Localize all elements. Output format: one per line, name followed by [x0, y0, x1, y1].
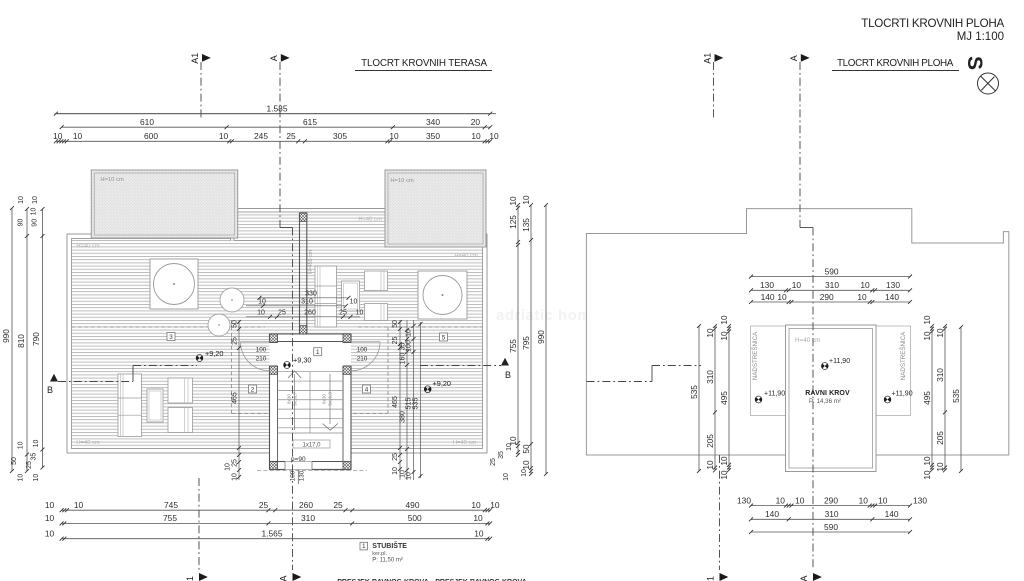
right plan right col 495 [931, 326, 933, 470]
svg-text:1: 1 [185, 576, 195, 581]
svg-text:A: A [279, 575, 289, 581]
svg-text:160: 160 [400, 353, 407, 365]
svg-text:A: A [269, 55, 279, 61]
svg-text:10: 10 [878, 495, 888, 505]
svg-text:A: A [799, 575, 809, 581]
svg-text:50: 50 [232, 320, 239, 328]
svg-text:10: 10 [17, 441, 24, 449]
svg-text:10: 10 [922, 470, 932, 480]
svg-text:1.585: 1.585 [267, 104, 288, 114]
svg-text:10: 10 [406, 472, 413, 480]
right top dim 590 [751, 276, 910, 278]
svg-text:NADSTREŠNICA: NADSTREŠNICA [900, 331, 907, 380]
svg-text:10: 10 [922, 315, 932, 325]
svg-text:+11,90: +11,90 [764, 390, 785, 397]
svg-text:10: 10 [490, 500, 500, 510]
svg-text:10: 10 [471, 500, 481, 510]
svg-text:535: 535 [413, 398, 420, 410]
svg-text:755: 755 [508, 339, 518, 353]
svg-text:515: 515 [406, 398, 413, 410]
right top dim 140/10/290/10/140 [751, 301, 910, 303]
svg-text:260: 260 [299, 500, 313, 510]
svg-text:130: 130 [737, 495, 751, 505]
box label 1 [314, 348, 322, 356]
svg-text:A: A [789, 55, 799, 61]
svg-text:495: 495 [719, 391, 729, 405]
svg-text:90: 90 [18, 219, 25, 227]
svg-text:25: 25 [392, 337, 399, 345]
right plan right col 310/205 [944, 326, 946, 470]
elevation +9,20 right [423, 384, 433, 394]
nadstresnica right [876, 326, 911, 416]
svg-text:245: 245 [254, 131, 268, 141]
svg-text:TLOCRTI KROVNIH PLOHA: TLOCRTI KROVNIH PLOHA [861, 17, 1004, 30]
mini dim under stair [297, 470, 299, 484]
svg-text:25: 25 [26, 461, 33, 469]
svg-text:P: 14,36 m²: P: 14,36 m² [809, 398, 841, 405]
section line 1 bottom right plan [719, 455, 721, 570]
svg-text:10: 10 [860, 280, 870, 290]
svg-text:10: 10 [935, 328, 945, 338]
svg-text:465: 465 [392, 396, 399, 408]
svg-text:+11,90: +11,90 [892, 390, 913, 397]
svg-text:8x30: 8x30 [322, 394, 327, 404]
svg-text:TLOCRT KROVNIH PLOHA: TLOCRT KROVNIH PLOHA [837, 58, 954, 69]
svg-text:10: 10 [45, 513, 55, 523]
svg-text:125: 125 [508, 215, 518, 229]
svg-text:310: 310 [825, 509, 839, 519]
dashed roof break line left [72, 326, 266, 328]
stair lower box 1x17 [293, 440, 330, 448]
svg-text:600: 600 [144, 131, 158, 141]
table mid [342, 281, 360, 311]
dashed hidden edge below stair [257, 469, 367, 471]
svg-text:10: 10 [777, 292, 787, 302]
svg-text:10: 10 [922, 331, 932, 341]
svg-text:1.565: 1.565 [262, 529, 283, 539]
elevation +11,90 center [820, 361, 830, 371]
right plan left col 310/205 [714, 326, 716, 470]
top dim row detail [56, 140, 490, 142]
svg-text:1x17,0: 1x17,0 [302, 442, 321, 448]
svg-text:10: 10 [521, 460, 531, 470]
svg-text:310: 310 [825, 280, 839, 290]
vchain x407 [406, 320, 408, 480]
svg-text:10: 10 [406, 329, 413, 337]
round table small 2 [208, 314, 230, 336]
svg-text:10: 10 [705, 328, 715, 338]
lounger pair bottom-left [118, 374, 142, 437]
svg-text:130: 130 [760, 280, 774, 290]
svg-text:10: 10 [45, 529, 55, 539]
box label 4 [363, 385, 371, 393]
top dim row 610/615/340/20 [62, 126, 491, 128]
svg-text:A1: A1 [703, 53, 713, 64]
svg-text:9x16,9: 9x16,9 [328, 392, 333, 406]
bottom dim row 755/310/500 [62, 522, 491, 524]
svg-text:205: 205 [705, 434, 715, 448]
svg-text:1: 1 [706, 576, 716, 581]
left dim col 810 [26, 209, 28, 471]
svg-text:10: 10 [859, 495, 869, 505]
svg-text:H=40 cm: H=40 cm [453, 440, 477, 446]
svg-text:130: 130 [299, 470, 306, 481]
svg-text:10: 10 [489, 131, 499, 141]
section line B right plan [587, 381, 653, 383]
elevation +11,90 left [754, 395, 764, 405]
svg-text:P: 11,50 m²: P: 11,50 m² [372, 558, 403, 564]
section line B right [420, 365, 501, 367]
svg-text:H=40 cm: H=40 cm [76, 244, 100, 250]
terrace top-right H=10 [385, 170, 486, 247]
svg-text:610: 610 [140, 117, 154, 127]
dim 310 row [246, 305, 346, 307]
svg-text:615: 615 [303, 117, 317, 127]
right bottom dim 140/310/140 [751, 518, 910, 520]
svg-text:290: 290 [820, 292, 834, 302]
svg-text:260: 260 [304, 309, 316, 316]
chimney wall above stair [299, 213, 301, 334]
svg-text:135: 135 [521, 218, 531, 232]
svg-text:50: 50 [11, 457, 18, 465]
chairs bottom-left [168, 378, 193, 403]
skylight square+circle left [150, 259, 198, 309]
svg-text:290: 290 [824, 495, 838, 505]
staircase enclosure U1 [270, 334, 352, 469]
door arc right [351, 342, 380, 371]
svg-text:130: 130 [913, 495, 927, 505]
svg-text:10: 10 [389, 131, 399, 141]
chairs mid [365, 271, 388, 291]
svg-text:10: 10 [219, 131, 229, 141]
elevation +9,20 left [195, 353, 205, 363]
svg-text:10: 10 [18, 474, 25, 482]
left dim col 790 [42, 209, 44, 468]
box label 5 [440, 333, 448, 341]
svg-text:25: 25 [232, 459, 239, 467]
svg-text:795: 795 [521, 336, 531, 350]
stair up arrow [294, 374, 296, 430]
svg-text:25: 25 [333, 500, 343, 510]
section line A1 right plan [713, 62, 715, 120]
svg-text:10: 10 [257, 309, 265, 316]
svg-text:140: 140 [885, 292, 899, 302]
svg-text:8x30: 8x30 [287, 394, 292, 404]
svg-text:10: 10 [30, 208, 37, 216]
svg-text:10: 10 [45, 500, 55, 510]
svg-text:310: 310 [705, 370, 715, 384]
svg-text:+9,30: +9,30 [293, 356, 311, 365]
svg-text:+9,20: +9,20 [433, 379, 451, 388]
svg-text:NADSTREŠNICA: NADSTREŠNICA [752, 331, 759, 380]
svg-text:210: 210 [256, 356, 267, 363]
svg-text:25: 25 [278, 309, 286, 316]
elevation +9,30 [282, 360, 292, 370]
svg-text:50: 50 [521, 444, 531, 454]
svg-text:310: 310 [301, 513, 315, 523]
lounger pair mid [315, 266, 337, 327]
svg-text:1: 1 [316, 349, 320, 356]
right top dim 130/10/310/10/130 [751, 289, 910, 291]
svg-text:H=40 cm: H=40 cm [76, 440, 100, 446]
svg-text:A1: A1 [190, 53, 200, 64]
section line 1 bottom [198, 478, 200, 570]
svg-text:10: 10 [33, 440, 40, 448]
stair divider [309, 372, 311, 433]
svg-text:140: 140 [765, 509, 779, 519]
svg-text:590: 590 [825, 266, 839, 276]
stair treads [278, 371, 344, 373]
svg-text:10: 10 [719, 315, 729, 325]
elevation +11,90 right [883, 395, 893, 405]
svg-text:9x16,7: 9x16,7 [293, 392, 298, 406]
right plan left col 495 [728, 326, 730, 470]
svg-text:+9,20: +9,20 [205, 349, 223, 358]
svg-text:ker.pl.: ker.pl. [372, 551, 387, 557]
legend stubiste [360, 542, 368, 550]
right plan right col 535 [960, 327, 962, 471]
svg-text:5: 5 [442, 334, 446, 341]
svg-text:535: 535 [951, 389, 961, 403]
stair down arrow [329, 374, 331, 424]
jacuzzi square+circle right [418, 271, 467, 319]
svg-text:100: 100 [256, 347, 267, 354]
svg-text:S: S [963, 56, 986, 70]
vchain x420.5 [420, 322, 422, 478]
svg-text:310: 310 [935, 368, 945, 382]
svg-text:H=450 cm: H=450 cm [308, 250, 314, 274]
door arc left [241, 342, 270, 371]
svg-text:590: 590 [824, 522, 838, 532]
svg-text:990: 990 [1, 329, 11, 343]
svg-text:p=90: p=90 [291, 456, 306, 463]
svg-text:adriatic home: adriatic home [496, 307, 600, 324]
svg-text:MJ 1:100: MJ 1:100 [957, 31, 1004, 43]
svg-text:810: 810 [16, 334, 26, 348]
svg-text:3: 3 [169, 334, 173, 341]
svg-text:10: 10 [792, 280, 802, 290]
north compass circle [978, 73, 999, 94]
section line A bottom flag right plan [813, 573, 822, 581]
svg-text:4: 4 [365, 386, 369, 393]
left plan upper deck H=40 [231, 209, 389, 241]
right plan left col 535 [698, 326, 700, 471]
svg-text:10: 10 [74, 500, 84, 510]
svg-text:H=10 cm: H=10 cm [100, 177, 124, 183]
svg-text:790: 790 [31, 332, 41, 346]
svg-text:TLOCRT KROVNIH TERASA: TLOCRT KROVNIH TERASA [361, 58, 487, 69]
svg-text:10: 10 [705, 460, 715, 470]
svg-text:10: 10 [922, 456, 932, 466]
svg-text:10: 10 [719, 470, 729, 480]
svg-text:25: 25 [232, 337, 239, 345]
svg-text:+11,90: +11,90 [829, 358, 850, 365]
svg-text:10: 10 [508, 196, 518, 206]
svg-text:10: 10 [719, 331, 729, 341]
svg-text:495: 495 [922, 391, 932, 405]
section line A1 top [200, 62, 202, 120]
right bottom dim detail [751, 505, 910, 507]
svg-text:25: 25 [339, 309, 347, 316]
right dim col 755 [517, 205, 519, 455]
bottom dim row 1.565 [62, 538, 491, 540]
svg-text:10: 10 [503, 473, 510, 481]
table bottom-left [147, 389, 163, 422]
svg-text:340: 340 [426, 117, 440, 127]
stair wall hatch blocks [270, 334, 278, 342]
svg-text:35: 35 [31, 453, 38, 461]
vchain x400 [399, 320, 401, 480]
svg-text:10: 10 [473, 513, 483, 523]
svg-text:RAVNI KROV: RAVNI KROV [805, 390, 850, 397]
bottom dim row detail [62, 509, 491, 511]
section line A bottom [292, 470, 294, 570]
svg-text:B: B [47, 385, 53, 395]
right dim col 795 [530, 205, 532, 474]
left dim col 990 [11, 208, 13, 471]
svg-text:10: 10 [356, 309, 364, 316]
vchain x239 [238, 320, 240, 480]
right bottom dim 590 [751, 531, 910, 533]
svg-text:205: 205 [935, 431, 945, 445]
box label 3 [167, 333, 175, 341]
svg-text:B: B [505, 370, 511, 380]
svg-text:90: 90 [32, 219, 39, 227]
vchain x413.5 [413, 320, 415, 480]
svg-text:10: 10 [32, 196, 39, 204]
svg-text:490: 490 [406, 500, 420, 510]
svg-text:H=40 cm: H=40 cm [454, 253, 478, 259]
svg-text:10: 10 [18, 196, 25, 204]
svg-text:380: 380 [400, 411, 407, 423]
svg-text:130: 130 [886, 280, 900, 290]
svg-text:H=40 cm: H=40 cm [795, 337, 820, 344]
svg-text:10: 10 [474, 529, 484, 539]
svg-text:10: 10 [521, 195, 531, 205]
svg-text:10: 10 [225, 463, 232, 471]
svg-text:25: 25 [259, 500, 269, 510]
svg-text:10: 10 [53, 131, 63, 141]
svg-text:10: 10 [795, 495, 805, 505]
nadstresnica left [751, 326, 786, 416]
flat roof block [786, 325, 877, 472]
svg-text:10: 10 [232, 473, 239, 481]
svg-text:10: 10 [776, 495, 786, 505]
svg-text:500: 500 [408, 513, 422, 523]
svg-text:10: 10 [73, 131, 83, 141]
svg-text:10: 10 [506, 443, 513, 451]
svg-text:2: 2 [251, 386, 255, 393]
svg-text:10: 10 [521, 469, 528, 477]
svg-text:210: 210 [357, 356, 368, 363]
left plan main roof body [67, 234, 487, 453]
svg-text:10: 10 [719, 456, 729, 466]
svg-text:350: 350 [426, 131, 440, 141]
svg-text:535: 535 [689, 385, 699, 399]
dashed opening box around stair [231, 320, 233, 414]
svg-text:310: 310 [301, 298, 313, 305]
section line A right plan [799, 62, 801, 228]
svg-text:140: 140 [885, 509, 899, 519]
svg-text:35: 35 [498, 451, 505, 459]
right dim col 990b [545, 205, 547, 474]
svg-text:10: 10 [258, 298, 266, 305]
svg-text:H=40 cm: H=40 cm [358, 217, 382, 223]
svg-text:H=10 cm: H=10 cm [390, 178, 414, 184]
svg-text:990: 990 [536, 330, 546, 344]
svg-text:10: 10 [935, 462, 945, 472]
svg-text:745: 745 [164, 500, 178, 510]
dim 260 row [246, 316, 360, 318]
svg-text:25: 25 [392, 453, 399, 461]
svg-text:100: 100 [357, 347, 368, 354]
svg-text:140: 140 [761, 292, 775, 302]
top dim row 1.585 [56, 113, 490, 115]
svg-text:STUBIŠTE: STUBIŠTE [372, 541, 407, 550]
dashed roof break line right [358, 326, 483, 328]
svg-text:10: 10 [33, 474, 40, 482]
svg-text:330: 330 [305, 290, 317, 297]
dim 330 row [260, 297, 349, 299]
svg-text:10: 10 [392, 467, 399, 475]
svg-text:25: 25 [286, 131, 296, 141]
round table small 1 [220, 288, 244, 312]
svg-text:25: 25 [490, 458, 497, 466]
svg-text:10: 10 [350, 298, 358, 305]
svg-text:10: 10 [857, 292, 867, 302]
svg-text:465: 465 [232, 392, 239, 404]
terrace top-left H=10 [91, 170, 237, 238]
svg-text:755: 755 [163, 513, 177, 523]
section line B left [58, 381, 133, 383]
box label 2 [249, 385, 257, 393]
svg-text:50: 50 [392, 320, 399, 328]
svg-text:305: 305 [333, 131, 347, 141]
svg-text:10: 10 [471, 131, 481, 141]
section line A top-jog-down [279, 62, 281, 228]
svg-text:20: 20 [471, 117, 481, 127]
right plan roof outline [586, 209, 1008, 455]
svg-text:100: 100 [406, 340, 413, 352]
